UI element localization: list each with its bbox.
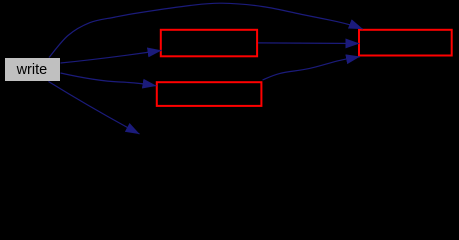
node box2 [157, 82, 262, 106]
edge write to box3 top curve [49, 3, 363, 57]
node box3 [359, 30, 452, 56]
edge write to box2 [61, 73, 157, 86]
edge box1 to box3 [258, 42, 359, 45]
edge box2 to box3 [263, 57, 361, 80]
node box1 [161, 30, 257, 57]
svg-text:write: write [16, 62, 48, 78]
edge write to hidden node [49, 82, 140, 135]
edge write to box1 [61, 50, 162, 63]
node write [5, 58, 60, 81]
